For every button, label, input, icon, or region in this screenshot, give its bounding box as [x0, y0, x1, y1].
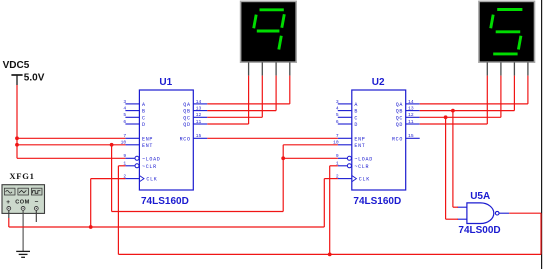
sheet border (right edge)	[541, 0, 543, 269]
svg-text:+: +	[6, 199, 10, 206]
wire U2 QA to display pin	[420, 103, 528, 105]
svg-text:6: 6	[123, 119, 126, 125]
svg-text:~LOAD: ~LOAD	[354, 156, 373, 162]
svg-text:CLK: CLK	[146, 177, 157, 183]
svg-text:5.0V: 5.0V	[24, 72, 45, 83]
wire U2 ~CLR down	[329, 166, 331, 255]
svg-text:QD: QD	[183, 122, 190, 128]
wire clock up to U2 CLK	[323, 179, 325, 227]
svg-text:12: 12	[196, 112, 202, 118]
svg-text:ENP: ENP	[354, 136, 365, 142]
svg-text:C: C	[142, 115, 146, 121]
ground symbol	[16, 251, 30, 257]
node clock branch junction	[89, 225, 93, 229]
svg-text:5: 5	[336, 112, 339, 118]
svg-text:B: B	[142, 109, 146, 115]
svg-text:3: 3	[336, 99, 339, 105]
svg-text:4: 4	[123, 106, 126, 112]
wire reset bus bottom	[118, 253, 541, 255]
svg-text:A: A	[354, 102, 358, 108]
svg-text:QA: QA	[183, 102, 190, 108]
wire to U2 ~LOAD	[283, 157, 338, 159]
svg-text:QD: QD	[396, 122, 403, 128]
svg-text:74LS160D: 74LS160D	[353, 196, 401, 207]
wire U2 QC to display pin	[420, 116, 501, 118]
node U2 QB tap junction	[451, 109, 455, 113]
svg-text:14: 14	[196, 99, 202, 105]
node ENT branch junction	[110, 143, 114, 147]
wire QB tap down to NAND input	[452, 111, 454, 208]
wire U2 QD to display pin	[420, 123, 488, 125]
svg-text:12: 12	[408, 112, 414, 118]
svg-text:QB: QB	[396, 109, 403, 115]
svg-text:74LS00D: 74LS00D	[458, 225, 500, 236]
svg-text:XFG1: XFG1	[9, 171, 34, 181]
wire to U2 ENT	[283, 144, 338, 146]
svg-text:3: 3	[123, 99, 126, 105]
node VCC-ENP junction	[15, 136, 19, 140]
wire clock bus horizontal	[9, 226, 325, 228]
wire NAND output right	[509, 212, 541, 214]
wire U1 QB to display pin	[207, 110, 276, 112]
wire to U1 ~CLR	[118, 165, 125, 167]
svg-text:D: D	[354, 122, 358, 128]
wire U1 QC to display pin	[207, 116, 262, 118]
seven-segment display U3 (digit 9) pins	[249, 62, 290, 75]
node U2 ~LOAD branch junction	[281, 156, 285, 160]
wire VCC vertical from VDC5	[16, 85, 18, 158]
node VCC-ENT junction	[15, 143, 19, 147]
svg-text:5: 5	[123, 112, 126, 118]
pin XFG1 - stub	[35, 210, 37, 222]
node reset bus junction	[328, 253, 332, 257]
svg-text:RCO: RCO	[392, 136, 403, 142]
wire NAND output down right edge	[540, 213, 542, 254]
node U2 QC tap junction	[444, 115, 448, 119]
svg-text:ENT: ENT	[354, 143, 365, 149]
wire to U2 ~CLR	[330, 165, 338, 167]
svg-text:11: 11	[196, 119, 202, 125]
svg-text:U1: U1	[159, 77, 172, 88]
svg-text:A: A	[142, 102, 146, 108]
wire ENT link horizontal	[112, 211, 284, 213]
wire QC tap down to NAND input	[445, 117, 447, 219]
seven-segment display U4 (digit 5) pins	[487, 62, 528, 75]
wire U1 QA to display pin	[207, 103, 289, 105]
svg-text:C: C	[354, 115, 358, 121]
wire VCC to U1 ENP	[17, 137, 125, 139]
svg-text:QB: QB	[183, 109, 190, 115]
svg-text:74LS160D: 74LS160D	[141, 196, 189, 207]
nand gate U5A 74LS00D	[457, 203, 509, 224]
wire U1 ~CLR down	[117, 166, 119, 255]
svg-text:U5A: U5A	[470, 191, 490, 202]
counter U1 74LS160D	[121, 90, 208, 190]
wire ENT link up to U2	[282, 145, 284, 212]
pin XFG1 + stub	[8, 210, 10, 218]
svg-text:14: 14	[408, 99, 414, 105]
power source VDC5 symbol	[11, 75, 22, 85]
svg-text:U2: U2	[372, 77, 385, 88]
wire VCC to U1 ~LOAD	[17, 157, 125, 159]
wire XFG1 + output down	[8, 218, 10, 227]
svg-text:D: D	[142, 122, 146, 128]
wire U1 QD to display pin	[207, 123, 248, 125]
wire VCC to U1 ENT	[17, 144, 125, 146]
function generator XFG1	[2, 185, 45, 214]
seven-segment display U4 (digit 5) body	[479, 1, 535, 62]
counter U2 74LS160D	[333, 90, 420, 190]
svg-text:11: 11	[408, 119, 414, 125]
svg-text:~CLR: ~CLR	[354, 164, 369, 170]
svg-text:VDC5: VDC5	[3, 60, 30, 71]
svg-text:ENT: ENT	[142, 143, 153, 149]
svg-text:RCO: RCO	[180, 136, 191, 142]
svg-text:COM: COM	[15, 200, 30, 206]
svg-text:15: 15	[196, 133, 202, 139]
svg-text:QA: QA	[396, 102, 403, 108]
svg-text:QC: QC	[183, 115, 190, 121]
svg-text:15: 15	[408, 133, 414, 139]
wire U1 RCO to U2 ENP	[207, 137, 337, 139]
svg-text:6: 6	[336, 119, 339, 125]
wire to U1 CLK	[91, 178, 126, 180]
svg-text:CLK: CLK	[359, 177, 370, 183]
svg-text:−: −	[35, 199, 39, 206]
svg-text:B: B	[354, 109, 358, 115]
svg-text:13: 13	[408, 106, 414, 112]
svg-text:13: 13	[196, 106, 202, 112]
svg-text:~LOAD: ~LOAD	[142, 156, 161, 162]
svg-text:~CLR: ~CLR	[142, 164, 157, 170]
wire clock up to U1 CLK	[90, 179, 92, 227]
svg-text:ENP: ENP	[142, 136, 153, 142]
wire ENT branch down	[111, 145, 113, 212]
pin XFG1 COM stub	[22, 210, 24, 251]
wire U2 QB to display pin	[420, 110, 515, 112]
svg-text:4: 4	[336, 106, 339, 112]
wire to U2 CLK	[324, 178, 338, 180]
seven-segment display U3 (digit 9) body	[241, 1, 297, 62]
svg-text:QC: QC	[396, 115, 403, 121]
